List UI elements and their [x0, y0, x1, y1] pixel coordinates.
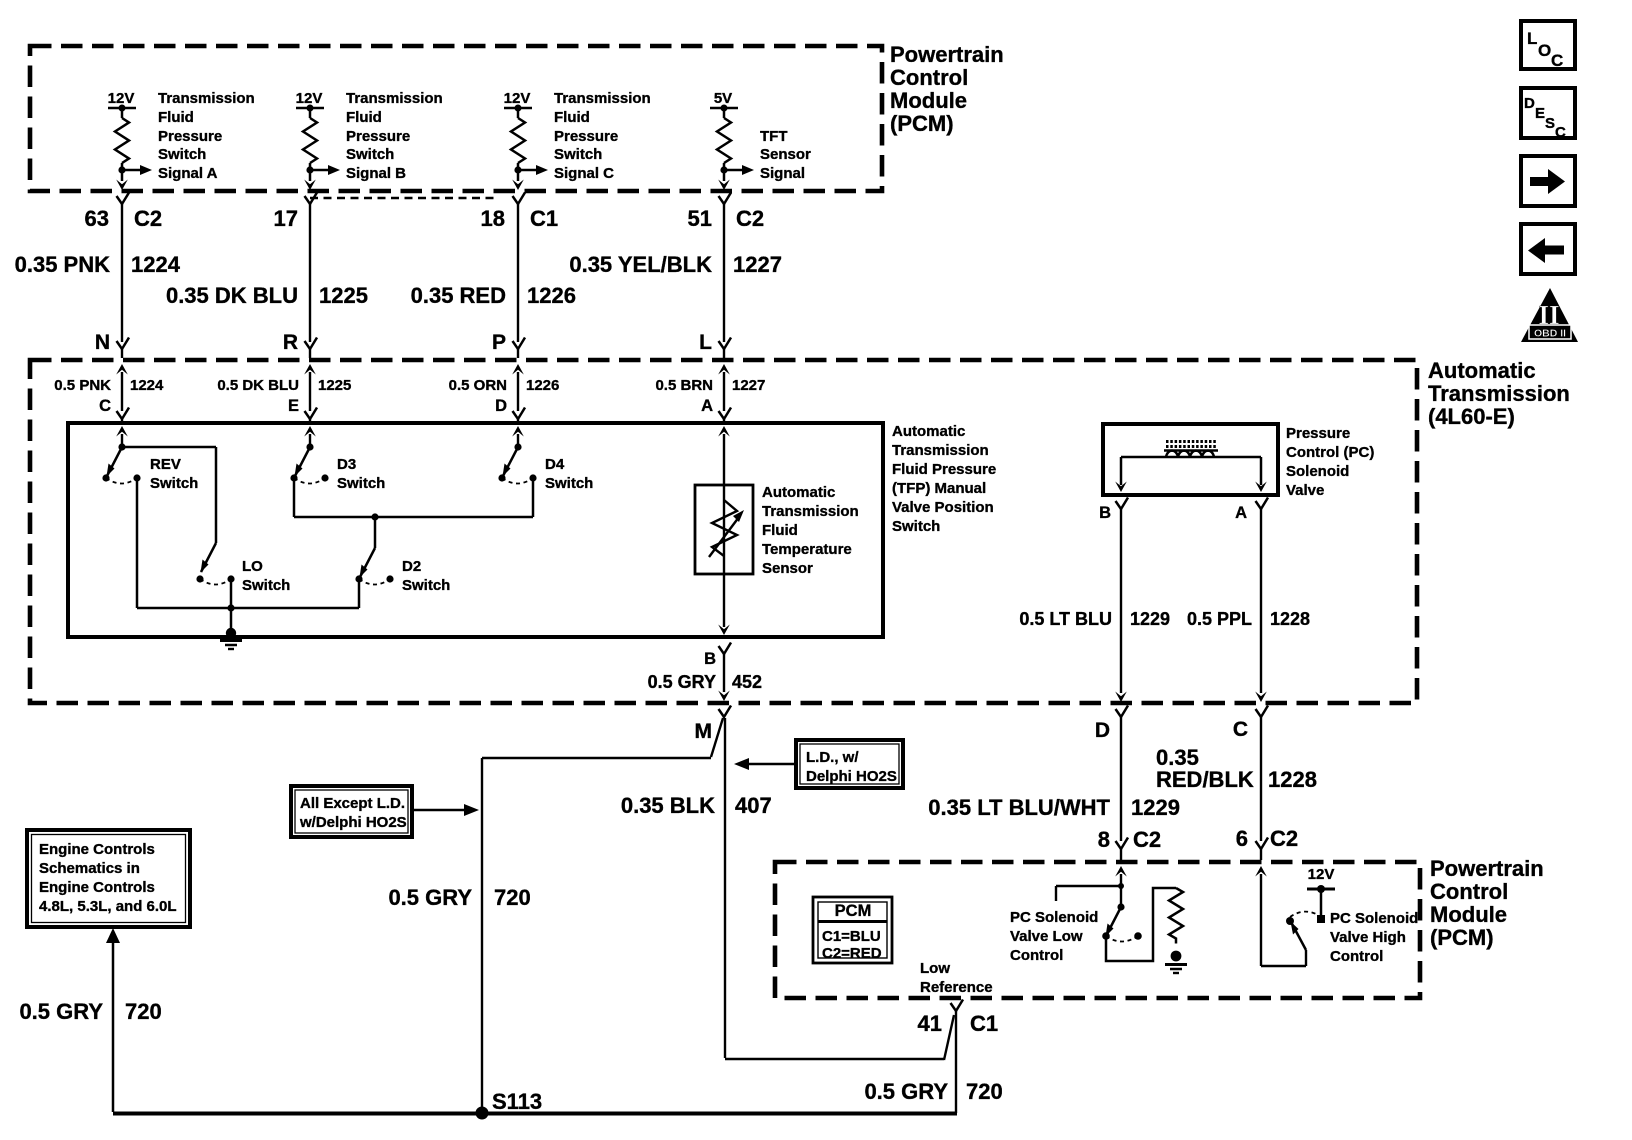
splice S113 [476, 1089, 543, 1120]
svg-text:C: C [99, 397, 111, 415]
svg-text:0.35 LT BLU/WHT: 0.35 LT BLU/WHT [928, 795, 1110, 820]
svg-text:C: C [1555, 124, 1566, 141]
wire col3 into D4 switch [512, 426, 524, 451]
svg-text:0.35 DK BLU: 0.35 DK BLU [166, 283, 298, 308]
pointer arrow All Except to wire 720 [414, 804, 479, 816]
wire 0.5 BRN inside entry col4 [718, 364, 730, 411]
wire REV pivot to LO switch [122, 447, 216, 543]
svg-text:Pressure: Pressure [554, 128, 618, 145]
12V supply high control [1307, 885, 1335, 923]
svg-text:Engine Controls: Engine Controls [39, 879, 155, 896]
svg-text:Module: Module [1430, 902, 1507, 927]
svg-text:Fluid: Fluid [554, 109, 590, 126]
svg-text:Control: Control [1330, 948, 1383, 965]
label 0.5 GRY 720 mid [388, 885, 530, 910]
svg-text:C2=RED: C2=RED [822, 945, 882, 962]
svg-text:Fluid: Fluid [762, 522, 798, 539]
svg-text:D2: D2 [402, 558, 421, 575]
svg-text:Transmission: Transmission [158, 90, 255, 107]
wire D4 right contact down to link [532, 478, 535, 517]
svg-text:Sensor: Sensor [762, 560, 813, 577]
label D2 Switch [402, 558, 450, 594]
connector pin 17 [274, 193, 317, 232]
label Automatic Transmission Fluid Temperature Sensor [762, 484, 859, 577]
svg-text:0.5 GRY: 0.5 GRY [864, 1079, 948, 1104]
svg-text:C: C [1233, 718, 1248, 741]
label 12V col2 [296, 90, 323, 107]
svg-text:D3: D3 [337, 456, 356, 473]
connector pin N [95, 331, 129, 358]
connector pin C bottom [1233, 706, 1268, 742]
svg-text:(TFP) Manual: (TFP) Manual [892, 480, 986, 497]
wire link down to D2 switch [374, 517, 377, 548]
connector pin D [495, 397, 525, 423]
svg-text:Automatic: Automatic [762, 484, 835, 501]
svg-text:Switch: Switch [242, 577, 290, 594]
wire to engine controls with up arrow [106, 928, 120, 1112]
connector pin A solenoid [1235, 498, 1268, 523]
svg-text:E: E [288, 397, 299, 415]
label TFT Sensor Signal [760, 128, 811, 182]
svg-text:63: 63 [85, 206, 109, 231]
svg-text:1226: 1226 [526, 377, 559, 394]
wire ground bus [137, 604, 359, 611]
svg-text:P: P [492, 331, 506, 354]
svg-text:REV: REV [150, 456, 181, 473]
label PC Solenoid Valve High Control [1330, 910, 1418, 965]
box All Except L.D. w/Delphi HO2S [291, 786, 412, 837]
svg-text:Pressure: Pressure [158, 128, 222, 145]
svg-text:Fluid Pressure: Fluid Pressure [892, 461, 996, 478]
wire D3 left contact down [293, 478, 296, 517]
svg-text:Switch: Switch [402, 577, 450, 594]
svg-text:41: 41 [918, 1011, 942, 1036]
icon arrow right [1521, 156, 1575, 206]
svg-text:O: O [1538, 41, 1551, 60]
wire low control contact to resistor [1106, 888, 1176, 961]
label 0.35 DK BLU 1225 [166, 283, 368, 308]
svg-text:Powertrain: Powertrain [890, 42, 1004, 67]
svg-text:S: S [1545, 115, 1555, 132]
svg-text:Module: Module [890, 88, 967, 113]
svg-text:w/Delphi HO2S: w/Delphi HO2S [299, 814, 407, 831]
svg-text:Control (PC): Control (PC) [1286, 444, 1374, 461]
svg-text:A: A [1235, 504, 1247, 522]
svg-text:Signal C: Signal C [554, 165, 614, 182]
svg-text:Reference: Reference [920, 979, 993, 996]
svg-text:Switch: Switch [892, 518, 940, 535]
svg-text:OBD II: OBD II [1534, 328, 1566, 340]
svg-text:D4: D4 [545, 456, 565, 473]
svg-text:(PCM): (PCM) [1430, 925, 1494, 950]
label Transmission Fluid Pressure Switch Signal A [158, 90, 255, 182]
svg-text:452: 452 [732, 672, 762, 692]
label 0.35 PNK 1224 [15, 252, 181, 277]
label Transmission Fluid Pressure Switch Signal C [554, 90, 651, 182]
PC solenoid valve low control switch [1102, 903, 1142, 941]
wire 407 M branch diagonal [711, 718, 723, 757]
wire LO right contact to bus and ground [230, 579, 233, 631]
REV switch [102, 447, 140, 484]
svg-text:720: 720 [966, 1079, 1003, 1104]
label PC Solenoid Valve Low Control [1010, 909, 1098, 964]
wire pin6 into PCM [1255, 866, 1306, 966]
label 0.5 BRN 1227 [655, 377, 765, 394]
svg-text:C2: C2 [1270, 826, 1298, 851]
wire col1 into REV switch [116, 426, 128, 451]
svg-text:Switch: Switch [150, 475, 198, 492]
svg-text:PC Solenoid: PC Solenoid [1330, 910, 1418, 927]
svg-text:C1=BLU: C1=BLU [822, 928, 881, 945]
PCM top dashed box [30, 46, 882, 191]
svg-text:0.35 RED: 0.35 RED [411, 283, 506, 308]
label 0.5 GRY 720 left [19, 999, 161, 1024]
icon arrow left [1521, 224, 1575, 274]
D2 switch [355, 548, 393, 585]
svg-text:PC Solenoid: PC Solenoid [1010, 909, 1098, 926]
label Low Reference [920, 960, 993, 996]
12V supply and resistor R1 col1 [108, 105, 152, 191]
svg-text:Pressure: Pressure [346, 128, 410, 145]
connector pin L [699, 331, 731, 358]
connector pin R [283, 331, 317, 358]
connector pin B [704, 643, 731, 669]
connector pin 8 C2 [1098, 827, 1161, 852]
label 5V col4 [714, 90, 732, 107]
svg-text:Engine Controls: Engine Controls [39, 841, 155, 858]
svg-text:1229: 1229 [1130, 609, 1170, 629]
svg-text:Pressure: Pressure [1286, 425, 1350, 442]
svg-text:1227: 1227 [733, 252, 782, 277]
label Powertrain Control Module (PCM) bottom [1430, 856, 1544, 950]
wire 1229 solenoid B down [1115, 509, 1127, 702]
connector pin M [695, 706, 732, 744]
label LO Switch [242, 558, 290, 594]
svg-text:0.5 BRN: 0.5 BRN [655, 377, 713, 394]
12V supply and resistor R3 col3 [504, 105, 548, 191]
svg-text:Control: Control [890, 65, 968, 90]
svg-text:407: 407 [735, 793, 772, 818]
svg-text:17: 17 [274, 206, 298, 231]
svg-text:0.5 LT BLU: 0.5 LT BLU [1019, 609, 1112, 629]
connector pin D bottom [1095, 706, 1128, 743]
svg-text:51: 51 [688, 206, 712, 231]
wire 0.5 DK BLU inside entry col2 [304, 364, 316, 411]
svg-text:720: 720 [125, 999, 162, 1024]
wire 720 from pin 41 [955, 1011, 957, 1113]
svg-text:Automatic: Automatic [1428, 358, 1536, 383]
PCM bottom dashed box [775, 862, 1420, 998]
svg-text:0.35 YEL/BLK: 0.35 YEL/BLK [569, 252, 712, 277]
label 0.5 GRY 452 [648, 672, 762, 692]
box L.D. w/Delphi HO2S [796, 740, 903, 788]
label Powertrain Control Module (PCM) top [890, 42, 1004, 136]
connector pin 41 C1 [918, 1000, 999, 1037]
svg-text:Transmission: Transmission [892, 442, 989, 459]
svg-text:Automatic: Automatic [892, 423, 965, 440]
svg-text:Sensor: Sensor [760, 146, 811, 163]
svg-text:C2: C2 [736, 206, 764, 231]
label 0.35 LT BLU/WHT 1229 [928, 795, 1180, 820]
wire REV right contact down to bus [136, 478, 139, 608]
svg-text:Delphi HO2S: Delphi HO2S [806, 768, 897, 785]
svg-text:TFT: TFT [760, 128, 788, 145]
wire D2 left contact to bus [358, 579, 361, 608]
svg-text:12V: 12V [504, 90, 531, 107]
svg-text:Switch: Switch [346, 146, 394, 163]
svg-text:Transmission: Transmission [1428, 381, 1570, 406]
label Pressure Control (PC) Solenoid Valve [1286, 425, 1374, 499]
svg-text:0.35 BLK: 0.35 BLK [621, 793, 715, 818]
5V supply and resistor R4 col4 [710, 105, 754, 191]
label D4 Switch [545, 456, 593, 492]
svg-text:E: E [1535, 105, 1545, 122]
svg-text:0.5 PNK: 0.5 PNK [54, 377, 111, 394]
PCM connector legend box [813, 897, 892, 963]
svg-text:PCM: PCM [835, 902, 872, 920]
TFT sensor RT1 [695, 485, 753, 574]
label 0.35 RED 1226 [411, 283, 576, 308]
wire 1227 PCM to transmission [723, 204, 725, 342]
label 12V col3 [504, 90, 531, 107]
svg-text:B: B [704, 650, 716, 668]
svg-text:C2: C2 [1133, 827, 1161, 852]
svg-text:RED/BLK: RED/BLK [1156, 767, 1254, 792]
wire 1226 PCM to transmission [517, 204, 519, 342]
Automatic Transmission dashed box [30, 360, 1417, 703]
TFP manual valve position switch box [68, 423, 883, 637]
svg-text:L: L [1527, 29, 1537, 48]
svg-text:1225: 1225 [319, 283, 368, 308]
svg-text:Valve High: Valve High [1330, 929, 1406, 946]
label 0.35 YEL/BLK 1227 [569, 252, 782, 277]
svg-text:18: 18 [481, 206, 505, 231]
svg-text:Solenoid: Solenoid [1286, 463, 1349, 480]
icon LOC [1521, 21, 1575, 70]
wire 1225 PCM to transmission [309, 204, 311, 342]
svg-text:B: B [1099, 504, 1111, 522]
C1 connector dashed line [310, 197, 497, 199]
icon DESC [1521, 88, 1575, 141]
svg-text:Transmission: Transmission [554, 90, 651, 107]
svg-text:Transmission: Transmission [346, 90, 443, 107]
svg-text:Switch: Switch [158, 146, 206, 163]
svg-text:1228: 1228 [1268, 767, 1317, 792]
wire pin8 into PCM [1115, 866, 1127, 907]
wire col4 through TFT sensor [718, 426, 730, 635]
svg-text:1228: 1228 [1270, 609, 1310, 629]
label D3 Switch [337, 456, 385, 492]
label 0.5 DK BLU 1225 [217, 377, 351, 394]
svg-text:8: 8 [1098, 827, 1110, 852]
wire 0.5 ORN inside entry col3 [512, 364, 524, 411]
connector pin 6 C2 [1236, 826, 1298, 851]
svg-text:720: 720 [494, 885, 531, 910]
svg-text:0.5 DK BLU: 0.5 DK BLU [217, 377, 299, 394]
svg-text:Schematics in: Schematics in [39, 860, 140, 877]
D4 switch [498, 447, 536, 484]
label 0.5 GRY 720 right [864, 1079, 1002, 1104]
wire D3 to D4 link [294, 513, 533, 520]
svg-text:Control: Control [1430, 879, 1508, 904]
box Engine Controls Schematics [27, 830, 190, 927]
D3 switch [290, 447, 328, 484]
label Automatic Transmission (4L60-E) [1428, 358, 1570, 429]
svg-text:6: 6 [1236, 826, 1248, 851]
svg-text:C: C [1551, 51, 1563, 70]
svg-text:C1: C1 [530, 206, 558, 231]
svg-text:All Except L.D.: All Except L.D. [300, 795, 405, 812]
svg-text:D: D [1524, 95, 1535, 112]
wire 0.5 PNK inside entry col1 [116, 364, 128, 411]
wire 1224 PCM to transmission [121, 204, 123, 342]
svg-text:4.8L, 5.3L, and 6.0L: 4.8L, 5.3L, and 6.0L [39, 898, 177, 915]
svg-text:Valve Low: Valve Low [1010, 928, 1083, 945]
wire 1229 to PCM [1116, 717, 1129, 860]
svg-text:Valve Position: Valve Position [892, 499, 994, 516]
svg-text:(4L60-E): (4L60-E) [1428, 404, 1515, 429]
label REV Switch [150, 456, 198, 492]
svg-text:M: M [695, 720, 713, 743]
svg-text:LO: LO [242, 558, 263, 575]
svg-text:D: D [495, 397, 507, 415]
wire col2 into D3 switch [304, 426, 316, 451]
svg-text:1224: 1224 [131, 252, 181, 277]
svg-text:L.D., w/: L.D., w/ [806, 749, 859, 766]
connector pin C [99, 397, 129, 423]
resistor R5 low control [1169, 888, 1183, 944]
wire 1228 to PCM [1256, 717, 1269, 860]
Pressure Control PC solenoid valve [1103, 424, 1278, 495]
svg-text:12V: 12V [296, 90, 323, 107]
svg-text:0.5 ORN: 0.5 ORN [449, 377, 507, 394]
svg-text:C2: C2 [134, 206, 162, 231]
svg-text:1226: 1226 [527, 283, 576, 308]
svg-text:D: D [1095, 719, 1110, 742]
svg-text:0.5 PPL: 0.5 PPL [1187, 609, 1252, 629]
connector pin A [701, 397, 731, 423]
svg-text:Signal: Signal [760, 165, 805, 182]
connector pin B solenoid [1099, 498, 1128, 523]
label 0.5 PPL 1228 [1187, 609, 1310, 629]
connector pin P [492, 331, 525, 358]
svg-text:1227: 1227 [732, 377, 765, 394]
svg-text:Transmission: Transmission [762, 503, 859, 520]
svg-text:C1: C1 [970, 1011, 998, 1036]
pointer bracket PC solenoid valve low control [1056, 886, 1121, 901]
icon OBD II triangle [1521, 288, 1578, 342]
label 12V col1 [108, 90, 135, 107]
connector pin E [288, 397, 317, 423]
pointer arrow LD to wire 407 [734, 758, 794, 770]
svg-text:Control: Control [1010, 947, 1063, 964]
svg-text:L: L [699, 331, 712, 354]
svg-text:0.5 GRY: 0.5 GRY [19, 999, 103, 1024]
wire 720 M to S113 [482, 758, 711, 1112]
wire 452 to box edge [718, 654, 730, 701]
svg-text:Powertrain: Powertrain [1430, 856, 1544, 881]
svg-text:Temperature: Temperature [762, 541, 852, 558]
ground G1 [220, 628, 242, 649]
wire 1228 solenoid A down [1255, 509, 1267, 702]
wire 720 bottom run [113, 1112, 957, 1116]
svg-text:Switch: Switch [545, 475, 593, 492]
svg-text:Fluid: Fluid [346, 109, 382, 126]
connector pin 63 C2 [85, 193, 163, 232]
svg-text:A: A [701, 397, 713, 415]
label Automatic Transmission Fluid Pressure (TFP) Manual Valve Position Switch [892, 423, 996, 535]
connector pin 51 C2 [688, 193, 765, 232]
svg-text:12V: 12V [108, 90, 135, 107]
connector pin 18 C1 [481, 193, 559, 232]
PC solenoid valve high control switch [1286, 912, 1316, 950]
svg-text:1225: 1225 [318, 377, 351, 394]
svg-text:R: R [283, 331, 298, 354]
svg-text:Valve: Valve [1286, 482, 1324, 499]
LO switch [196, 543, 234, 585]
svg-text:0.5 GRY: 0.5 GRY [648, 672, 716, 692]
svg-text:Signal B: Signal B [346, 165, 406, 182]
svg-text:(PCM): (PCM) [890, 111, 954, 136]
svg-text:N: N [95, 331, 110, 354]
svg-text:5V: 5V [714, 90, 732, 107]
wire 0.35 BLK 407 down [725, 718, 954, 1060]
svg-text:0.35 PNK: 0.35 PNK [15, 252, 110, 277]
label Transmission Fluid Pressure Switch Signal B [346, 90, 443, 182]
svg-text:Low: Low [920, 960, 950, 977]
label 0.35 BLK 407 [621, 793, 772, 818]
svg-text:1224: 1224 [130, 377, 164, 394]
svg-text:0.5 GRY: 0.5 GRY [388, 885, 472, 910]
svg-text:Fluid: Fluid [158, 109, 194, 126]
svg-text:Switch: Switch [554, 146, 602, 163]
12V supply and resistor R2 col2 [296, 105, 340, 191]
svg-text:1229: 1229 [1131, 795, 1180, 820]
ground G2 [1165, 951, 1187, 973]
label 0.5 LT BLU 1229 [1019, 609, 1170, 629]
svg-text:Switch: Switch [337, 475, 385, 492]
label 0.5 ORN 1226 [449, 377, 560, 394]
svg-text:12V: 12V [1308, 866, 1335, 883]
label 12V high control [1308, 866, 1335, 883]
label 0.35 RED/BLK 1228 [1156, 745, 1317, 792]
svg-text:Signal A: Signal A [158, 165, 218, 182]
label 0.5 PNK 1224 [54, 377, 164, 394]
svg-text:S113: S113 [492, 1089, 542, 1114]
